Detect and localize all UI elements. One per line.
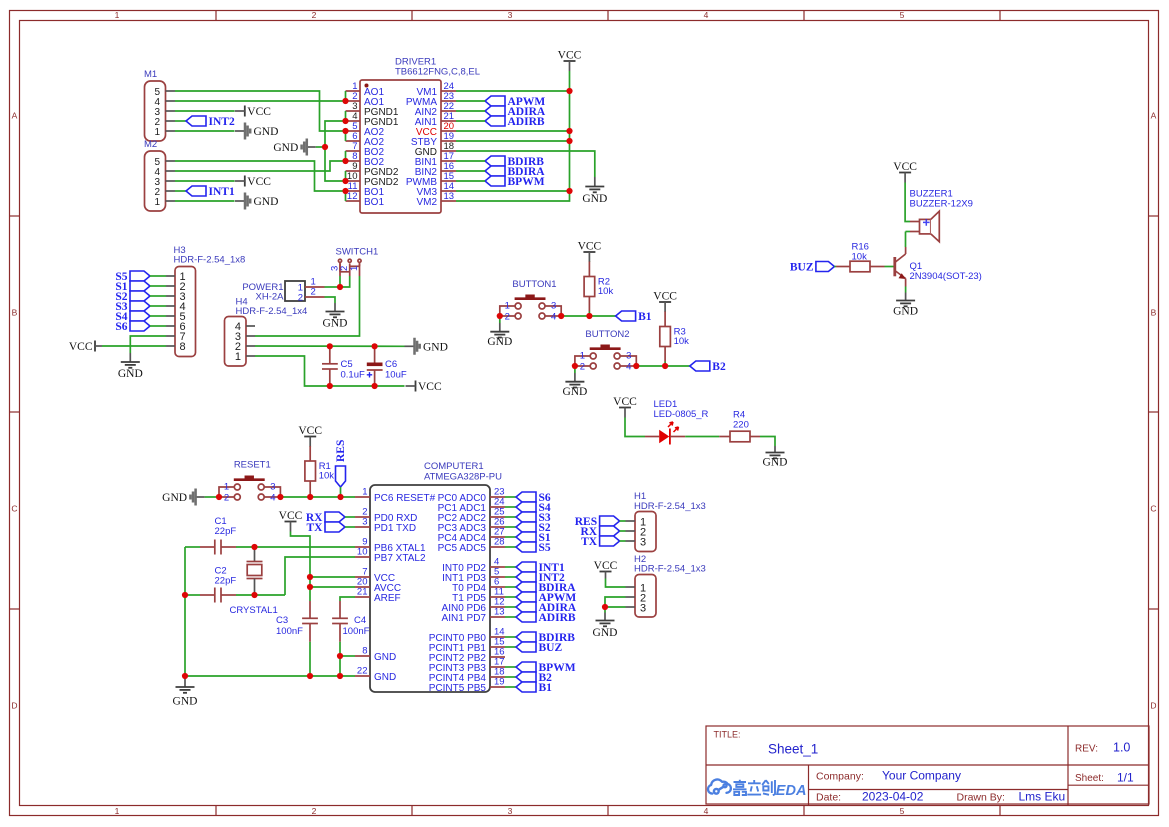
- junction dots BUTTON2 row: [572, 363, 668, 369]
- wire BUTTON2 to GND: [574, 366, 576, 373]
- net port BPWM at pin 17: [516, 662, 576, 674]
- driver pin 22 AIN2: [415, 101, 456, 118]
- net port ADIRB at pin 13: [516, 612, 576, 624]
- junction dots mcu left: [182, 544, 343, 679]
- mcu pin 15 PCINT1 PB1: [429, 637, 505, 655]
- svg-text:1/1: 1/1: [1117, 771, 1134, 785]
- wire pin 13 to ADIRB: [505, 616, 516, 618]
- wire BIN1 to BDIRB: [456, 160, 485, 162]
- wire BUZ to R16: [834, 266, 836, 268]
- wire RES to H1.1: [620, 520, 626, 522]
- svg-text:AIN1 PD7: AIN1 PD7: [442, 613, 487, 624]
- net port INT1: [186, 186, 235, 198]
- net port ADIRA: [485, 106, 546, 118]
- svg-text:Drawn By:: Drawn By:: [957, 792, 1005, 804]
- svg-text:B1: B1: [539, 682, 553, 694]
- net port BDIRB: [485, 156, 544, 168]
- wire gnd left vertical: [185, 547, 355, 676]
- wire pin 19 to B1: [505, 686, 516, 688]
- svg-text:VCC: VCC: [653, 291, 677, 303]
- svg-text:SWITCH1: SWITCH1: [336, 247, 379, 258]
- wire LED1 to R4: [685, 436, 719, 438]
- VCC flag R3: [653, 291, 677, 313]
- svg-text:XH-2A: XH-2A: [256, 292, 285, 303]
- junction dots driver right: [566, 88, 572, 194]
- mcu pin 1 PC6 RESET#: [355, 487, 436, 505]
- net port S5 at pin 28: [516, 542, 551, 554]
- svg-text:PC5 ADC5: PC5 ADC5: [438, 543, 487, 554]
- wire S4 to H3.5: [150, 315, 166, 317]
- mcu pin 25 PC2 ADC2: [438, 507, 505, 525]
- svg-text:1: 1: [115, 10, 120, 20]
- svg-text:M2: M2: [144, 139, 157, 150]
- net port S1 at pin 27: [516, 532, 551, 544]
- driver pin 6 AO2: [346, 131, 385, 148]
- wire RESET1 to chip row: [280, 496, 355, 498]
- capacitor C5 0.1uF: [322, 346, 365, 386]
- junction dot power switch: [337, 284, 343, 290]
- net port S3: [115, 301, 150, 313]
- wire GND to RESET1: [205, 496, 219, 498]
- svg-text:RES: RES: [335, 440, 347, 462]
- svg-text:GND: GND: [374, 672, 396, 683]
- svg-text:BUZ: BUZ: [790, 261, 814, 273]
- svg-text:TITLE:: TITLE:: [714, 730, 741, 740]
- svg-text:19: 19: [494, 677, 505, 688]
- wire M2.1 to GND: [175, 200, 235, 202]
- wire Q1 emitter to GND: [905, 287, 907, 293]
- wire R3 to row: [664, 362, 666, 367]
- wire AIN1 to ADIRB: [456, 120, 485, 122]
- svg-text:13: 13: [494, 607, 505, 618]
- wire R2 to row: [588, 312, 590, 317]
- wire VCC to R2: [588, 261, 590, 264]
- wire buzzer pin2 to Q1 collector: [906, 231, 911, 233]
- GND flag driver PGND: [273, 139, 315, 156]
- VCC flag H4 rail: [406, 381, 442, 394]
- driver pin 24 VM1: [416, 81, 456, 98]
- net port TX H1: [581, 536, 619, 548]
- capacitor C3 100nF: [276, 601, 318, 676]
- driver pin 5 AO2: [346, 121, 385, 138]
- wire VCC to buzzer pin1: [905, 183, 910, 222]
- net port RX mcu: [306, 512, 345, 524]
- VCC flag H3.8: [69, 341, 102, 354]
- wire BIN2 to BDIRA: [456, 170, 485, 172]
- wire SWITCH1.1 to H4.3: [255, 276, 360, 336]
- VCC flag buzzer: [893, 161, 917, 183]
- title block: [706, 726, 1149, 806]
- driver pin 14 VM3: [416, 181, 456, 198]
- driver pin 20 VCC: [416, 121, 456, 138]
- connector H1 HDR-F-2.54_1x3: [626, 491, 706, 552]
- svg-text:2023-04-02: 2023-04-02: [862, 790, 924, 804]
- driver pin 11 BO1: [346, 181, 385, 198]
- svg-text:1: 1: [154, 197, 160, 208]
- wire H4.1 to VCC rail: [255, 356, 405, 386]
- svg-text:10uF: 10uF: [385, 370, 407, 381]
- svg-text:2: 2: [580, 361, 585, 372]
- connector H4 HDR-F-2.54_1x4: [225, 297, 308, 367]
- svg-text:BPWM: BPWM: [508, 176, 545, 188]
- driver pin 1 AO1: [346, 81, 385, 98]
- svg-text:TX: TX: [581, 536, 598, 548]
- svg-text:GND: GND: [562, 386, 587, 398]
- svg-text:HDR-F-2.54_1x4: HDR-F-2.54_1x4: [236, 306, 308, 317]
- capacitor C2 22pF: [200, 566, 236, 603]
- driver pin 17 BIN1: [415, 151, 456, 168]
- svg-text:1: 1: [115, 806, 120, 816]
- svg-text:VCC: VCC: [69, 341, 93, 353]
- svg-text:GND: GND: [374, 652, 396, 663]
- svg-text:3: 3: [508, 10, 513, 20]
- svg-text:13: 13: [444, 191, 455, 202]
- wire AIN2 to ADIRA: [456, 110, 485, 112]
- svg-text:GND: GND: [893, 306, 918, 318]
- svg-text:10k: 10k: [598, 286, 614, 297]
- wire pin 27 to S1: [505, 536, 516, 538]
- mcu COMPUTER1 ATMEGA328P-PU: [370, 461, 502, 692]
- junction dots reset row: [216, 494, 344, 500]
- mcu pin 24 PC1 ADC1: [438, 497, 505, 515]
- junction dots C5 C6: [327, 343, 378, 389]
- driver pin pair hooks: [345, 91, 347, 201]
- svg-text:1: 1: [505, 301, 510, 312]
- wire R4 to GND: [760, 437, 775, 447]
- net port BDIRA: [485, 166, 545, 178]
- net port TX mcu: [307, 522, 345, 534]
- svg-text:220: 220: [733, 420, 749, 431]
- wire VCC pin20: [456, 130, 570, 132]
- svg-text:GND: GND: [423, 341, 448, 353]
- mcu pin 9 PB6 XTAL1: [355, 537, 426, 555]
- capacitor C6 10uF polarized: [367, 346, 407, 386]
- wire XTAL1 row: [185, 546, 355, 548]
- mcu pin 3 PD1 TXD: [355, 517, 416, 535]
- mcu pin 20 AVCC: [355, 577, 401, 595]
- svg-text:Lms Eku: Lms Eku: [1019, 790, 1066, 804]
- GND earth POWER1: [323, 303, 348, 330]
- svg-text:REV:: REV:: [1075, 744, 1098, 755]
- svg-text:B2: B2: [712, 361, 726, 373]
- GND flag RESET: [162, 489, 204, 506]
- svg-text:HDR-F-2.54_1x3: HDR-F-2.54_1x3: [634, 564, 706, 575]
- svg-text:10k: 10k: [319, 471, 335, 482]
- net port BPWM: [485, 176, 545, 188]
- svg-text:PD1 TXD: PD1 TXD: [374, 523, 416, 534]
- net port S1: [115, 281, 150, 293]
- GND earth BUTTON1: [487, 323, 512, 348]
- wire VCC to LED1: [625, 418, 645, 437]
- net port S4: [115, 311, 150, 323]
- svg-text:1: 1: [235, 351, 241, 363]
- svg-text:10k: 10k: [674, 336, 690, 347]
- wire VCC rail vertical: [456, 71, 570, 201]
- driver pin 18 GND: [415, 141, 456, 158]
- wire M1.2 to INT2: [175, 120, 186, 122]
- VCC flag M2.3: [235, 176, 271, 189]
- svg-text:Company:: Company:: [816, 771, 864, 783]
- button RESET1: [219, 459, 280, 503]
- resistor R2 10k: [584, 262, 613, 312]
- svg-text:2: 2: [298, 293, 303, 304]
- driver pin 8 BO2: [346, 151, 385, 168]
- svg-text:1: 1: [224, 482, 229, 493]
- driver pin 19 STBY: [411, 131, 456, 148]
- wire S5 to H3.1: [150, 275, 166, 277]
- svg-text:2: 2: [505, 311, 510, 322]
- mcu pin 26 PC3 ADC3: [438, 517, 505, 535]
- wire pin 17 to BPWM: [505, 666, 516, 668]
- net port BDIRA at pin 6: [516, 582, 576, 594]
- wire RX to H1.2: [620, 530, 626, 532]
- svg-text:Your Company: Your Company: [882, 769, 961, 783]
- resistor R3 10k: [660, 312, 689, 362]
- junction dot H2: [602, 604, 608, 610]
- mcu pin 21 AREF: [355, 587, 401, 605]
- net port BDIRB at pin 14: [516, 632, 575, 644]
- svg-text:AREF: AREF: [374, 593, 401, 604]
- wire PWMA to APWM: [456, 100, 485, 102]
- svg-text:HDR-F-2.54_1x3: HDR-F-2.54_1x3: [634, 501, 706, 512]
- net port B2: [690, 361, 726, 373]
- mcu pin 17 PCINT3 PB3: [429, 657, 505, 675]
- net port APWM: [485, 96, 545, 108]
- svg-text:GND: GND: [273, 142, 298, 154]
- wire H4.2 GND rail: [255, 345, 405, 347]
- svg-text:TB6612FNG,C,8,EL: TB6612FNG,C,8,EL: [395, 67, 480, 78]
- GND earth driver: [582, 177, 607, 205]
- wire M2.3 to VCC: [175, 180, 235, 182]
- svg-text:3: 3: [640, 536, 646, 548]
- wire pin 12 to ADIRA: [505, 606, 516, 608]
- wire M1.4 to AO1: [175, 100, 346, 102]
- net port INT1 at pin 4: [516, 562, 565, 574]
- svg-text:22pF: 22pF: [215, 526, 237, 537]
- svg-text:100nF: 100nF: [343, 626, 370, 637]
- driver pin 23 PWMA: [406, 91, 456, 108]
- wire POWER1.2 to GND: [325, 297, 336, 303]
- wire pin 23 to S6: [505, 496, 516, 498]
- wire VM1 to VCC: [456, 90, 570, 92]
- svg-text:PC6 RESET#: PC6 RESET#: [374, 493, 436, 504]
- wire TX to PD1: [345, 526, 355, 528]
- svg-text:A: A: [12, 111, 18, 121]
- svg-text:5: 5: [900, 806, 905, 816]
- svg-text:10: 10: [357, 547, 368, 558]
- net port APWM at pin 11: [516, 592, 576, 604]
- transistor Q1 2N3904: [895, 247, 982, 287]
- svg-text:0.1uF: 0.1uF: [341, 370, 365, 381]
- svg-text:S5: S5: [539, 542, 551, 554]
- driver pin 2 AO1: [346, 91, 385, 108]
- driver pin 15 PWMB: [406, 171, 456, 188]
- wire VCC to H2.1: [606, 579, 626, 588]
- svg-text:22pF: 22pF: [215, 576, 237, 587]
- svg-text:GND: GND: [487, 336, 512, 348]
- svg-text:GND: GND: [162, 492, 187, 504]
- EasyEDA logo: [708, 779, 806, 799]
- svg-text:3: 3: [551, 301, 556, 312]
- wire M1.1 to GND: [175, 130, 235, 132]
- mcu pin 28 PC5 ADC5: [438, 537, 505, 555]
- wire pin 5 to INT2: [505, 576, 516, 578]
- VCC flag driver top: [558, 50, 582, 72]
- VCC flag R1: [298, 425, 322, 447]
- wire S1 to H3.2: [150, 285, 166, 287]
- driver pin 21 AIN1: [415, 111, 456, 128]
- junction dots driver left: [322, 98, 349, 194]
- GND flag H4 rail: [405, 338, 448, 355]
- svg-text:B1: B1: [638, 311, 652, 323]
- svg-text:8: 8: [180, 341, 186, 353]
- wire GND to PGND1 PGND2: [316, 121, 346, 181]
- wire STBY to VCC: [456, 140, 570, 142]
- mcu pin 18 PCINT4 PB4: [429, 667, 505, 685]
- wire POWER1.1 to switch: [325, 286, 341, 288]
- mcu pin 27 PC4 ADC4: [438, 527, 505, 545]
- svg-text:A: A: [1151, 111, 1157, 121]
- svg-text:21: 21: [357, 587, 368, 598]
- svg-text:3: 3: [270, 482, 275, 493]
- svg-text:10k: 10k: [852, 252, 868, 263]
- svg-text:VCC: VCC: [418, 381, 442, 393]
- wire GND pin18: [456, 151, 595, 177]
- wire BUTTON1 to GND: [499, 316, 501, 323]
- svg-text:GND: GND: [118, 368, 143, 380]
- wire VM3 to VCC: [456, 190, 570, 192]
- svg-text:TX: TX: [307, 522, 324, 534]
- GND flag M1.1: [235, 123, 278, 140]
- svg-text:BUZZER-12X9: BUZZER-12X9: [910, 199, 973, 210]
- svg-text:BO1: BO1: [364, 197, 384, 208]
- wire TX to H1.3: [620, 540, 626, 542]
- driver pin 13 VM2: [416, 191, 456, 208]
- capacitor C4 100nF: [332, 597, 370, 642]
- svg-text:100nF: 100nF: [276, 626, 303, 637]
- wire M2.2 to INT1: [175, 190, 186, 192]
- mcu pin 10 PB7 XTAL2: [355, 547, 426, 565]
- connector M1: [144, 69, 175, 141]
- resistor R16 10k: [836, 242, 885, 272]
- VCC flag LED1: [613, 396, 637, 418]
- svg-text:BUTTON1: BUTTON1: [512, 279, 556, 290]
- svg-text:12: 12: [347, 191, 358, 202]
- svg-text:4: 4: [551, 311, 556, 322]
- mcu pin 12 AIN0 PD6: [442, 597, 505, 615]
- GND earth Q1: [893, 293, 918, 318]
- svg-text:M1: M1: [144, 69, 157, 80]
- net port BUZ left: [790, 261, 835, 273]
- svg-text:VCC: VCC: [893, 161, 917, 173]
- driver pin 9 PGND2: [346, 161, 399, 178]
- VCC flag H2: [594, 560, 618, 579]
- svg-text:2: 2: [311, 287, 316, 298]
- svg-text:D: D: [11, 701, 17, 711]
- wire pin 4 to INT1: [505, 566, 516, 568]
- VCC flag M1.3: [235, 106, 271, 119]
- svg-text:PB7 XTAL2: PB7 XTAL2: [374, 553, 426, 564]
- mcu pin 8 GND: [355, 646, 396, 664]
- connector H2 HDR-F-2.54_1x3: [626, 554, 706, 617]
- wire pin 6 to BDIRA: [505, 586, 516, 588]
- net port INT2: [186, 116, 235, 128]
- mcu pin 7 VCC: [355, 567, 395, 585]
- svg-text:Sheet_1: Sheet_1: [768, 742, 818, 757]
- svg-text:VCC: VCC: [298, 425, 322, 437]
- svg-text:4: 4: [270, 492, 275, 503]
- svg-text:1.0: 1.0: [1113, 741, 1130, 755]
- wire BUTTON1 to B1: [561, 315, 615, 317]
- svg-text:PCINT5 PB5: PCINT5 PB5: [429, 683, 487, 694]
- svg-text:BUZ: BUZ: [539, 642, 563, 654]
- svg-text:2: 2: [224, 492, 229, 503]
- wire XTAL2 row: [185, 557, 355, 595]
- mcu pin 4 INT0 PD2: [442, 557, 505, 575]
- net port S2 at pin 26: [516, 522, 551, 534]
- net port RES H1: [575, 516, 620, 528]
- driver pin 16 BIN2: [415, 161, 456, 178]
- svg-text:EDA: EDA: [776, 783, 807, 799]
- svg-text:1: 1: [154, 127, 160, 138]
- net port B1: [616, 311, 652, 323]
- svg-text:5: 5: [900, 10, 905, 20]
- wire H3.7 to GND: [130, 336, 166, 353]
- driver pin 10 PGND2: [346, 171, 399, 188]
- svg-text:C: C: [1150, 504, 1156, 514]
- wire M1.5 to AO2: [175, 91, 346, 131]
- svg-text:D: D: [1150, 701, 1156, 711]
- buzzer BUZZER1 BUZZER-12X9: [910, 189, 973, 242]
- net port ADIRB: [485, 116, 545, 128]
- svg-text:VCC: VCC: [247, 106, 271, 118]
- GND earth R4: [763, 446, 788, 469]
- crystal CRYSTAL1: [230, 547, 278, 616]
- wire BUTTON2 to B2: [636, 365, 690, 367]
- svg-text:C6: C6: [385, 359, 397, 370]
- wire pin 15 to BUZ: [505, 646, 516, 648]
- svg-text:GND: GND: [254, 196, 279, 208]
- GND flag M2.1: [235, 193, 278, 210]
- svg-text:B: B: [1151, 308, 1157, 318]
- svg-text:4: 4: [626, 361, 631, 372]
- resistor R4 220: [719, 410, 760, 442]
- svg-text:3: 3: [362, 517, 367, 528]
- svg-text:INT2: INT2: [209, 116, 235, 128]
- net port S5: [115, 271, 150, 283]
- wire pin 14 to BDIRB: [505, 636, 516, 638]
- net port BUZ at pin 15: [516, 642, 562, 654]
- wire pin 24 to S4: [505, 506, 516, 508]
- net port S2: [115, 291, 150, 303]
- svg-text:8: 8: [362, 646, 367, 657]
- svg-text:ADIRB: ADIRB: [508, 116, 545, 128]
- mcu pin 23 PC0 ADC0: [438, 487, 505, 505]
- svg-text:GND: GND: [763, 457, 788, 469]
- svg-text:4: 4: [704, 806, 709, 816]
- svg-text:VCC: VCC: [578, 241, 602, 253]
- GND earth H2: [593, 613, 618, 640]
- net port B2 at pin 18: [516, 672, 552, 684]
- svg-text:3: 3: [640, 602, 646, 614]
- net port S6: [115, 321, 150, 333]
- svg-text:VCC: VCC: [279, 510, 303, 522]
- svg-text:GND: GND: [173, 696, 198, 708]
- connector POWER1 XH-2A: [242, 277, 324, 304]
- net port RX H1: [580, 526, 619, 538]
- wire S6 to H3.6: [150, 325, 166, 327]
- driver IC U DRIVER1 TB6612FNG: [360, 57, 480, 214]
